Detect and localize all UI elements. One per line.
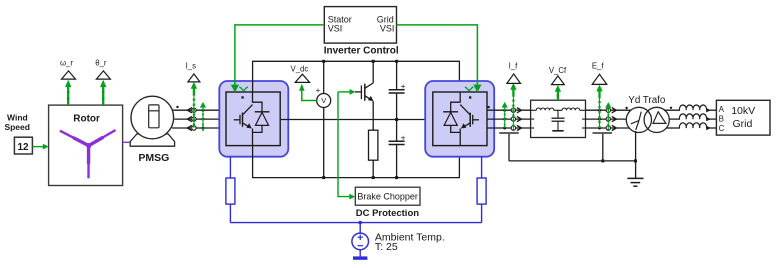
svg-text:Speed: Speed [4,122,30,132]
svg-text:DC Protection: DC Protection [356,208,420,219]
node polarity dot stator a left [176,106,178,108]
voltmeter V_dc branch wire [323,61,325,177]
svg-text:ω_r: ω_r [60,59,73,68]
wire stator phase a [173,109,226,111]
capacitor DC link upper [389,61,405,141]
svg-text:VSI: VSI [380,24,395,34]
thermal wire conv2 [481,157,483,223]
controller block Inverter Control [324,7,399,57]
node polarity dot stator a right [222,106,224,108]
junction dot ground bus 1 [601,159,604,162]
svg-text:B: B [719,115,724,124]
wire phase c filter to trafo [586,127,630,129]
voltmeter probe dots stator [202,109,205,130]
wire star point 2 to ground wire [602,134,604,161]
wire trafo neutral to ground [635,131,637,178]
wire I_s measurement dashed [191,82,197,128]
source ambient temperature [352,233,369,250]
svg-text:T: 25: T: 25 [375,241,398,253]
wire E_f measurement dashed [596,85,602,128]
svg-text:I_s: I_s [186,62,197,71]
wire V_Cf measurement [555,85,561,100]
wire stator phase b [174,118,226,120]
wire conv2 voltage measurement dashed [502,102,508,128]
star point bar E_f measurement [593,132,613,134]
converter U2 grid VSI block [425,81,494,157]
svg-text:Brake Chopper: Brake Chopper [357,192,418,202]
gate marker U1 [239,87,247,91]
turbine icon [60,130,116,178]
wire DC minus rail [253,146,460,178]
machine PMSG [130,96,174,164]
thermal ground bar [353,256,367,259]
node polarity dot trafo primary [625,107,627,109]
node polarity dot conv2 output [487,106,489,108]
ammeter arrows I_f [517,108,522,131]
thermal wire conv1 [229,157,231,223]
svg-text:10kV: 10kV [731,105,755,117]
wire thermal source top [359,223,361,234]
label box Brake Chopper [355,187,420,205]
thermal bus wire [230,222,481,224]
wire grid phase b trafo to coil [669,118,680,120]
voltmeter probe dots E_f [598,109,601,130]
tag omega_r [60,59,76,79]
wire chopper gate green [338,89,355,95]
wire stator voltage measurement dashed [200,102,206,131]
resistor chopper brake [369,130,378,177]
wire DC plus rail [253,61,460,92]
svg-text:C: C [719,124,725,133]
ammeter probes stator I_s [192,108,196,130]
svg-text:Grid: Grid [732,118,752,130]
filter block LC [531,100,586,137]
svg-text:A: A [719,105,725,114]
grid source block 10kV Grid [716,100,770,135]
svg-text:PMSG: PMSG [138,152,169,164]
junction dot ground bus 2 [634,159,637,162]
wire coil to grid box c [709,127,717,129]
ammeter probes after filter [606,108,610,130]
tag I_s [186,62,200,82]
svg-text:V_Cf: V_Cf [549,66,567,75]
svg-text:+: + [316,86,321,95]
wire coil to grid box a [709,109,717,111]
voltmeter V_dc [316,86,331,108]
wire current measurement dashed after filter [605,102,611,129]
wire grid phase a conv2 to filter [487,109,531,111]
star point bar conv2 measurement [499,132,519,134]
ammeter probes I_f [511,108,515,130]
ground symbol [627,178,643,186]
ammeter arrows after filter [612,108,617,131]
inductor icons filter [531,108,586,128]
wire DC midpoint line [280,119,433,121]
wire stator phase c [172,127,226,129]
svg-text:Inverter Control: Inverter Control [324,46,399,57]
inductor grid phase a [679,105,706,110]
svg-text:12: 12 [17,142,29,153]
gate marker U2 [465,87,473,91]
svg-text:+: + [401,133,406,143]
voltmeter probe dots conv2 output [503,109,506,130]
wire grid VSI gate signal [397,25,482,93]
gate terminal dot U1 [241,96,243,98]
junction dots DC rails [322,60,398,179]
thermal resistor conv2 [477,178,486,204]
svg-text:+: + [401,81,406,91]
capacitor icon filter [552,110,565,131]
svg-text:Rotor: Rotor [73,113,100,124]
svg-text:V_dc: V_dc [291,65,309,74]
svg-text:E_f: E_f [592,62,605,71]
rotor block R1 [49,105,123,185]
thermal resistor conv1 [226,178,235,204]
wire rotor speed to omega_r [65,80,71,105]
constant block Wind Speed value 12 [4,113,32,154]
inductor grid phase c [679,123,706,128]
transistor chopper IGBT [355,61,374,130]
svg-text:I_f: I_f [509,62,519,71]
wire phase b filter to trafo [586,118,628,120]
svg-text:V: V [321,96,326,105]
junction dot thermal bus [358,221,362,225]
wire phase a filter to trafo [586,109,633,111]
tag V_dc [291,65,310,83]
transformer T1 Yd Trafo [626,95,669,132]
tag V_Cf [549,66,567,85]
svg-text:θ_r: θ_r [95,59,107,68]
IGBT icon U1 [234,92,270,146]
wire I_f measurement dashed [510,83,516,130]
tag theta_r [95,59,110,79]
tag I_f [507,62,521,84]
svg-text:VSI: VSI [328,24,343,34]
wire stator VSI gate signal [231,25,324,93]
IGBT icon U2 mirrored [443,92,479,146]
wire grid phase a trafo to coil [664,109,680,111]
wire grid phase b conv2 to filter [487,118,531,120]
wire rotor shaft [123,141,131,143]
wire star point to ground wire [508,134,510,161]
node polarity dot trafo secondary [670,107,672,109]
wire grid phase c trafo to coil [667,127,680,129]
wire thermal source bottom [359,250,361,257]
ammeter arrows stator [187,108,192,131]
inductor grid phase b [679,114,706,119]
capacitor DC link lower [389,141,405,177]
converter U1 stator VSI block [219,81,288,157]
svg-text:Yd Trafo: Yd Trafo [628,95,666,106]
wire V_dc measurement [299,84,317,101]
wire grid phase c conv2 to filter [487,127,531,129]
tag E_f [592,62,607,85]
wire coil to grid box b [709,118,717,120]
wire rotor angle to theta_r [100,80,106,105]
wire chopper control green [338,92,355,200]
wire measurement ground bus [509,160,636,162]
wire wind speed signal [32,144,48,150]
